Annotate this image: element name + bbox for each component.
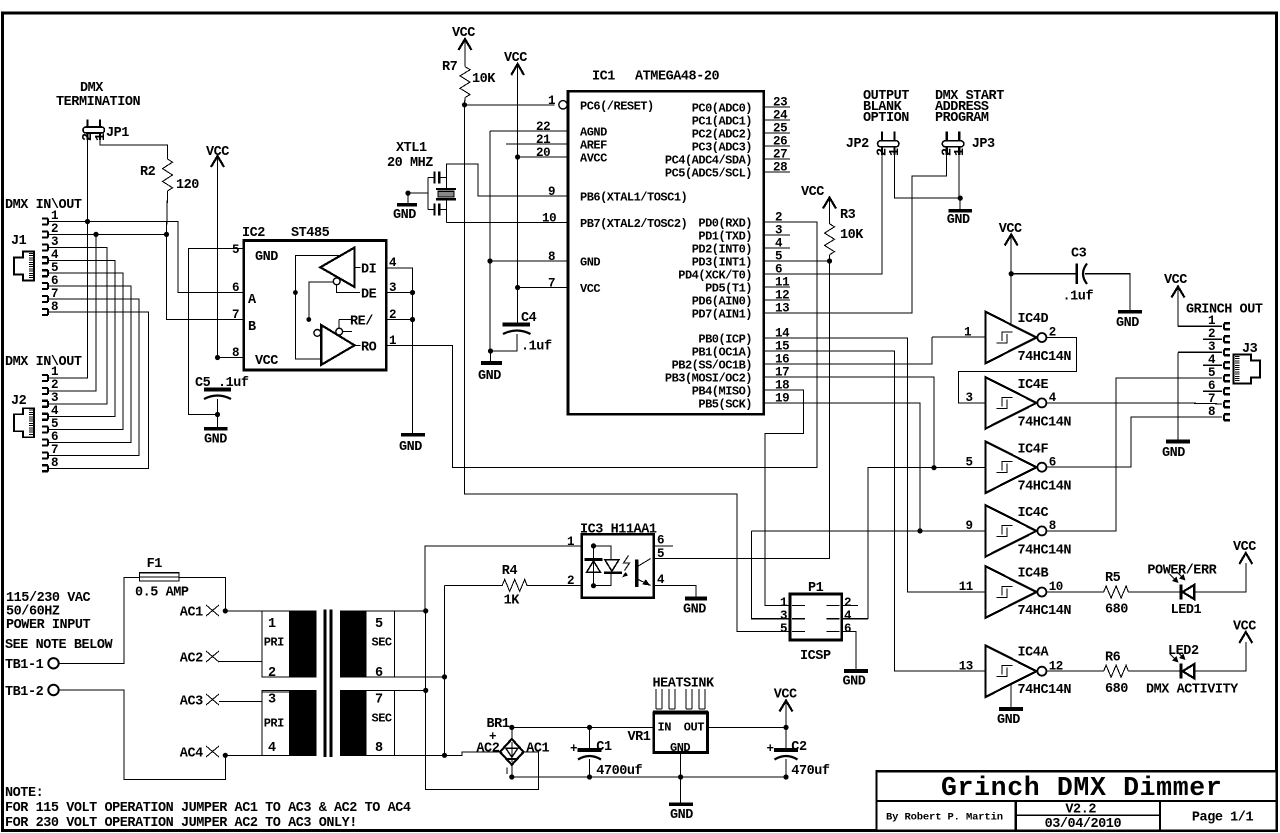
svg-text:7: 7: [232, 308, 239, 322]
wire PB1 net to IC4C input: [752, 530, 986, 532]
svg-text:PD5(T1): PD5(T1): [705, 282, 752, 296]
svg-text:1: 1: [888, 148, 903, 156]
pin 24 IC1: [764, 109, 790, 123]
pin 16 IC1 PB2 to IC4D/IC4F: [764, 337, 932, 367]
wire IC2 VCC pin8: [218, 357, 244, 359]
svg-text:GND: GND: [670, 808, 693, 823]
capacitor C2: [767, 727, 830, 779]
wire J3 pin3 to ground: [1177, 352, 1179, 441]
svg-text:6: 6: [51, 430, 58, 444]
svg-text:PD2(INT0): PD2(INT0): [692, 243, 752, 257]
wire J1 pin2 row: [48, 233, 167, 235]
wire R2 bottom to J1 pin2 row and IC2 B: [167, 191, 244, 320]
pin 26 IC1: [764, 135, 790, 149]
svg-text:PROGRAM: PROGRAM: [935, 111, 989, 126]
pin 1 J2: [42, 365, 58, 381]
svg-text:PC5(ADC5/SCL): PC5(ADC5/SCL): [665, 167, 752, 181]
svg-text:GND: GND: [683, 603, 706, 618]
inverter IC4B: [986, 566, 1072, 619]
wire IC2 GND pin5 to C5 net: [188, 248, 243, 414]
svg-text:3: 3: [780, 609, 787, 623]
pin 19 IC1 PB5 to P1 pin3: [764, 392, 920, 531]
title block: [876, 771, 1276, 832]
svg-text:8: 8: [1208, 405, 1215, 419]
svg-text:TB1-2: TB1-2: [5, 685, 44, 700]
svg-text:3: 3: [268, 693, 276, 708]
bridge rectifier BR1: [476, 717, 549, 780]
wire AC3 to primary pin3: [219, 692, 289, 702]
pin 18 IC1 PB4 to P1 pin1: [764, 379, 804, 606]
svg-text:8: 8: [375, 741, 383, 756]
svg-text:RO: RO: [361, 341, 377, 356]
ground below J3: [1162, 442, 1190, 462]
svg-text:GND: GND: [1162, 446, 1185, 461]
wire VR1 GND to rail: [680, 753, 682, 778]
svg-text:VCC: VCC: [1164, 273, 1187, 288]
pin 13 IC1 to JP3: [764, 155, 947, 316]
svg-text:AC1: AC1: [180, 606, 203, 621]
svg-text:74HC14N: 74HC14N: [1018, 350, 1072, 365]
power VCC (R3): [801, 185, 836, 224]
svg-text:22: 22: [536, 120, 550, 134]
power VCC (IC4D): [999, 222, 1022, 325]
junction C5 bottom: [215, 412, 220, 417]
pin 22 IC1 AGND: [490, 120, 568, 134]
svg-text:.1uf: .1uf: [1063, 290, 1094, 305]
wire DC ground rail: [512, 776, 786, 778]
wire P1 pin4 stub: [842, 618, 869, 620]
pin 8 J2: [42, 456, 58, 471]
pin 5 IC1 INT1: [764, 250, 830, 264]
IC1 left pin names: [580, 100, 687, 297]
wire J1 pin1 row to IC2 A: [48, 222, 244, 293]
crystal XTL1: [387, 141, 456, 223]
svg-text:74HC14N: 74HC14N: [1018, 604, 1072, 619]
inverter IC4A: [986, 645, 1072, 698]
svg-text:03/04/2010: 03/04/2010: [1045, 817, 1122, 832]
IC1 right pin names: [665, 102, 752, 412]
svg-text:PD0(RXD): PD0(RXD): [698, 217, 752, 231]
svg-text:TERMINATION: TERMINATION: [56, 95, 141, 110]
pin 3 J3: [1178, 340, 1230, 355]
svg-text:SEE NOTE BELOW: SEE NOTE BELOW: [5, 638, 113, 653]
svg-text:PD4(XCK/T0): PD4(XCK/T0): [678, 269, 752, 283]
svg-text:GND: GND: [997, 713, 1020, 728]
pin 5 J3: [1208, 366, 1230, 381]
svg-text:AVCC: AVCC: [580, 152, 607, 166]
svg-text:680: 680: [1105, 603, 1128, 618]
svg-text:IN: IN: [658, 721, 672, 735]
svg-text:21: 21: [536, 133, 550, 147]
svg-text:3: 3: [51, 391, 58, 405]
svg-text:20 MHZ: 20 MHZ: [387, 156, 433, 171]
svg-text:J2: J2: [11, 394, 27, 409]
pin 17 IC1 PB3 to P1 pin2: [764, 366, 934, 468]
resistor R5: [1046, 571, 1181, 618]
label 115/230 VAC power input: [5, 591, 113, 653]
wire LED2 to VCC: [1194, 642, 1246, 671]
pin 27 IC1: [764, 148, 790, 162]
node AC3: [180, 694, 219, 710]
svg-text:J1: J1: [11, 234, 27, 249]
pin 21 IC1 AREF: [506, 133, 568, 147]
ground below P1: [843, 671, 869, 690]
fuse F1: [135, 557, 189, 601]
svg-text:1: 1: [268, 617, 276, 632]
pin 11 IC1: [764, 276, 790, 290]
svg-text:AC3: AC3: [180, 695, 203, 710]
connector J2: [11, 394, 34, 437]
svg-text:AREF: AREF: [580, 139, 607, 153]
svg-text:10K: 10K: [840, 228, 864, 243]
svg-text:Page 1/1: Page 1/1: [1192, 811, 1254, 826]
pin 3 J1: [42, 235, 58, 250]
pin 23 IC1: [764, 96, 790, 110]
svg-text:PB6(XTAL1/TOSC1): PB6(XTAL1/TOSC1): [580, 191, 687, 205]
svg-text:R7: R7: [442, 60, 458, 75]
svg-text:5: 5: [375, 617, 383, 632]
svg-text:PB4(MISO): PB4(MISO): [692, 385, 752, 399]
connector J1: [11, 234, 34, 281]
svg-text:+: +: [570, 742, 577, 756]
wire J1 pin1 col to J2 pin1: [48, 222, 88, 379]
svg-text:PC2(ADC2): PC2(ADC2): [692, 128, 752, 142]
wire JP3 pin1 to ground: [958, 155, 960, 198]
svg-text:6: 6: [375, 666, 383, 681]
svg-text:6: 6: [232, 281, 239, 295]
svg-text:PC3(ADC3): PC3(ADC3): [692, 141, 752, 155]
svg-text:IC4C: IC4C: [1018, 506, 1049, 521]
pin 7 J3: [1208, 392, 1230, 407]
wire R3 bottom to INT1 row and IC3 pin5: [654, 255, 830, 559]
svg-text:PB1(OC1A): PB1(OC1A): [692, 346, 752, 360]
transformer T1 secondary windings: [340, 611, 394, 756]
junction sec8: [442, 753, 447, 758]
ground below C4: [478, 351, 502, 384]
wire AC2 to primary pin2: [219, 662, 289, 677]
svg-text:0.5 AMP: 0.5 AMP: [135, 586, 189, 601]
pin 6 IC1 XCK to JP2: [764, 155, 882, 277]
resistor R7: [442, 60, 496, 98]
connector P1 ICSP: [790, 581, 842, 664]
wire IC4D out to IC4E in: [959, 338, 1077, 403]
pin 12 IC1: [764, 289, 790, 303]
capacitor C5: [195, 376, 249, 415]
svg-text:C3: C3: [1071, 247, 1087, 262]
svg-text:LED1: LED1: [1171, 603, 1202, 618]
svg-text:GND: GND: [1116, 316, 1139, 331]
terminal TB1-2: [5, 685, 59, 700]
junction J1 pin1: [85, 219, 90, 224]
wire AC4 to primary pin4: [225, 754, 289, 756]
node AC4: [180, 746, 228, 762]
svg-text:ST485: ST485: [291, 226, 330, 241]
pin 6 J3: [1203, 379, 1230, 394]
junction R3 at INT1: [827, 258, 832, 263]
svg-text:20: 20: [536, 146, 550, 160]
svg-text:OUT: OUT: [684, 721, 704, 735]
svg-text:VCC: VCC: [1233, 540, 1256, 555]
ground below IC3 pin4: [683, 599, 707, 618]
wire J1 pin8 to J2 pin8: [48, 312, 149, 468]
pin 2 J3: [1203, 327, 1230, 342]
svg-text:FOR 230 VOLT OPERATION JUMPER: FOR 230 VOLT OPERATION JUMPER AC2 TO AC3…: [5, 816, 357, 831]
pin 25 IC1: [764, 122, 790, 136]
svg-text:2: 2: [51, 378, 58, 392]
junction C4 to GND col: [488, 348, 493, 353]
svg-text:GND: GND: [393, 208, 416, 223]
svg-text:10: 10: [542, 212, 556, 226]
svg-text:5: 5: [780, 622, 787, 636]
svg-text:PB2(SS/OC1B): PB2(SS/OC1B): [672, 359, 752, 373]
wire J1 pin2 col to J2 pin2: [48, 234, 96, 391]
transformer T1 primary windings: [262, 611, 316, 756]
transformer T1 core: [325, 610, 331, 758]
svg-text:PC1(ADC1): PC1(ADC1): [692, 115, 752, 129]
svg-text:AC1: AC1: [526, 742, 549, 757]
svg-text:10K: 10K: [472, 72, 496, 87]
wire P1 pin2 stub: [842, 605, 859, 607]
pin 2 J1: [42, 222, 58, 237]
svg-text:7: 7: [51, 443, 58, 457]
wire transformer sec5 to IC3 pin1: [425, 546, 582, 611]
svg-text:IC4A: IC4A: [1018, 646, 1050, 661]
label OUTPUT BLANK OPTION: [863, 89, 909, 126]
IC ATMEGA48 IC1 box: [568, 70, 764, 415]
wire IC3 pin4 to ground: [654, 586, 697, 598]
svg-text:VCC: VCC: [452, 26, 475, 41]
svg-text:F1: F1: [147, 557, 163, 572]
resistor R4: [445, 564, 582, 609]
svg-text:TB1-1: TB1-1: [5, 658, 44, 673]
wire sec pin5 row: [394, 610, 425, 612]
wire AGND col to ground: [489, 131, 491, 351]
wire sec7 net to BR1 AC1: [426, 690, 539, 789]
svg-text:1: 1: [51, 209, 58, 223]
junction VR1 gnd: [678, 774, 683, 779]
svg-text:PD1(TXD): PD1(TXD): [698, 230, 752, 244]
svg-text:7: 7: [548, 277, 555, 291]
svg-text:2: 2: [775, 211, 782, 225]
svg-text:1: 1: [51, 365, 58, 379]
svg-text:SEC: SEC: [372, 712, 392, 726]
wire J1 pin5 to J2 pin5: [48, 273, 123, 429]
svg-text:VCC: VCC: [801, 185, 824, 200]
svg-text:FOR 115 VOLT OPERATION JUMPER: FOR 115 VOLT OPERATION JUMPER AC1 TO AC3…: [5, 801, 411, 816]
svg-text:R6: R6: [1105, 651, 1121, 666]
svg-text:1: 1: [953, 148, 968, 156]
svg-text:13: 13: [959, 659, 973, 673]
pin 7 J1: [42, 287, 58, 302]
capacitor C1: [570, 725, 643, 780]
svg-text:DMX IN\OUT: DMX IN\OUT: [5, 198, 82, 213]
svg-text:11: 11: [959, 580, 973, 594]
wire F1 to AC1: [179, 578, 225, 611]
svg-text:74HC14N: 74HC14N: [1018, 415, 1072, 430]
wire sec5 to sec7 tie: [425, 611, 427, 691]
pin 4 J1: [42, 248, 59, 263]
LED LED1: [1147, 564, 1217, 619]
svg-text:2: 2: [844, 596, 851, 610]
wire IC4C out to J3 pin5: [1046, 378, 1222, 531]
svg-text:VCC: VCC: [504, 51, 527, 66]
svg-text:VCC: VCC: [255, 354, 278, 369]
power VCC (LED2): [1233, 620, 1256, 644]
svg-text:R3: R3: [840, 208, 856, 223]
IC3 internal LEDs and phototransistor: [585, 543, 651, 588]
label DMX TERMINATION: [56, 81, 141, 110]
junction VCC C2: [783, 725, 788, 730]
wire PB2 net to IC4D input: [932, 336, 985, 338]
wire J1 pin3 to J2 pin3: [48, 247, 107, 403]
svg-text:R2: R2: [140, 165, 156, 180]
svg-text:Grinch DMX Dimmer: Grinch DMX Dimmer: [941, 773, 1222, 803]
svg-text:JP2: JP2: [846, 137, 869, 152]
heatsink: [653, 676, 716, 711]
junction RESET: [462, 102, 467, 107]
inverter IC4D: [986, 312, 1072, 365]
IC2 internal wires: [293, 256, 377, 359]
junction sec7: [423, 688, 428, 693]
wire VCC to J3 pin1: [1178, 325, 1222, 327]
svg-text:PB7(XTAL2/TOSC2): PB7(XTAL2/TOSC2): [580, 217, 687, 231]
svg-text:GND: GND: [399, 440, 422, 455]
IC ST485 IC2 box: [242, 226, 386, 370]
svg-text:DMX ACTIVITY: DMX ACTIVITY: [1146, 683, 1239, 698]
pin 14 IC1 PB0 to IC4B: [764, 327, 986, 593]
wire J1 pin7 to J2 pin7: [48, 299, 139, 455]
svg-text:By Robert P. Martin: By Robert P. Martin: [886, 812, 1003, 824]
svg-text:4: 4: [268, 741, 276, 756]
power VCC (VR1 out): [774, 688, 797, 728]
ground below XTL1: [393, 205, 417, 223]
svg-text:+: +: [767, 742, 774, 756]
wire sec pin8 row to BR1 AC2: [394, 752, 500, 755]
svg-text:7: 7: [375, 693, 383, 708]
wire JP1 pin1 to R2 top: [100, 140, 168, 159]
svg-text:1: 1: [567, 535, 574, 549]
svg-text:IC4E: IC4E: [1018, 378, 1049, 393]
wire JP2 pin1 to ground: [894, 155, 960, 198]
svg-text:8: 8: [51, 456, 58, 470]
terminal TB1-1: [5, 658, 59, 673]
junction SCK at IC4C row: [917, 528, 922, 533]
svg-text:GND: GND: [478, 369, 501, 384]
wire crystal top to IC1 pin9: [446, 164, 568, 196]
svg-text:PB3(MOSI/OC2): PB3(MOSI/OC2): [665, 372, 752, 386]
wire sec6 tie to sec8: [444, 677, 446, 755]
wire sec pin6 row: [394, 676, 444, 678]
junction VCC C3: [1009, 271, 1014, 276]
junction JP ground: [958, 196, 963, 201]
svg-text:GND: GND: [947, 213, 970, 228]
resistor R6: [1046, 651, 1181, 698]
IC H11AA1 IC3: [580, 523, 657, 598]
svg-text:470uf: 470uf: [791, 764, 830, 779]
svg-text:1: 1: [548, 94, 555, 108]
wire crystal bottom to IC1 pin10: [446, 222, 568, 224]
junction R2 bottom: [164, 232, 169, 237]
wire RO to IC1 RXD: [386, 222, 817, 467]
junction sec6 R4: [442, 674, 447, 679]
pin 3 IC1 TXD: [764, 224, 790, 238]
jumper JP2: [846, 132, 903, 156]
svg-text:1: 1: [780, 596, 787, 610]
svg-text:7: 7: [1208, 392, 1215, 406]
svg-text:GND: GND: [580, 256, 600, 270]
resistor R3: [825, 208, 865, 255]
pin 7 IC1 VCC: [515, 277, 568, 291]
wire BR1 plus to VR1 IN: [512, 726, 654, 728]
svg-text:5: 5: [657, 547, 664, 561]
svg-text:PD7(AIN1): PD7(AIN1): [692, 308, 752, 322]
svg-text:2: 2: [268, 666, 276, 681]
junction J1 pin2: [93, 232, 98, 237]
svg-text:DMX: DMX: [80, 81, 104, 96]
svg-text:C1: C1: [596, 740, 612, 755]
svg-text:4: 4: [844, 609, 852, 623]
svg-text:NOTE:: NOTE:: [5, 786, 43, 801]
svg-text:AGND: AGND: [580, 126, 607, 140]
svg-text:74HC14N: 74HC14N: [1018, 683, 1072, 698]
svg-text:74HC14N: 74HC14N: [1018, 543, 1072, 558]
wire J1 pin4 to J2 pin4: [48, 260, 115, 416]
svg-text:JP3: JP3: [972, 137, 995, 152]
svg-text:PB5(SCK): PB5(SCK): [698, 398, 752, 412]
ground below C3: [1116, 312, 1142, 331]
capacitor C3: [1011, 247, 1130, 312]
wire JP1 pin2 down to J1 pin1 net: [87, 140, 89, 222]
svg-text:OPTION: OPTION: [863, 111, 909, 126]
svg-text:PRI: PRI: [264, 635, 284, 649]
svg-text:C2: C2: [791, 740, 807, 755]
svg-text:SEC: SEC: [372, 635, 392, 649]
wire AC1 to primary pin1: [225, 610, 289, 612]
svg-text:4: 4: [657, 573, 665, 587]
pin 6 J2: [42, 430, 58, 446]
power VCC (IC1): [504, 51, 527, 324]
svg-text:GRINCH OUT: GRINCH OUT: [1186, 303, 1263, 318]
pin 6 J1: [42, 274, 58, 289]
wire LED1 to VCC: [1194, 563, 1246, 592]
svg-text:B: B: [248, 320, 256, 335]
wire R4 left col to sec6: [444, 585, 446, 677]
wire P1 pin6 to ground: [842, 632, 856, 670]
wire VR1 OUT to VCC: [708, 726, 787, 728]
junction sec5: [423, 608, 428, 613]
node AC2: [180, 651, 219, 667]
pin 5 J1: [42, 261, 58, 276]
svg-text:680: 680: [1105, 682, 1128, 697]
power VCC (R7): [452, 26, 475, 67]
pin 4 J2: [42, 404, 59, 420]
pin 5 J2: [42, 417, 58, 433]
pin 1 J3: [1208, 314, 1230, 329]
junction RE: [410, 317, 415, 322]
svg-text:5: 5: [1208, 366, 1215, 380]
ground below VR1: [669, 777, 693, 823]
connector J3: [1234, 342, 1261, 384]
svg-text:IC4B: IC4B: [1018, 567, 1049, 582]
svg-text:VCC: VCC: [580, 282, 600, 296]
svg-text:PC0(ADC0): PC0(ADC0): [692, 102, 752, 116]
svg-text:DI: DI: [361, 263, 377, 278]
IC2 driver triangle (DI): [320, 248, 354, 288]
svg-text:4700uf: 4700uf: [596, 764, 642, 779]
pin 3 J2: [42, 391, 58, 407]
svg-text:IC2: IC2: [242, 226, 265, 241]
label DMX START ADDRESS PROGRAM: [935, 89, 1004, 126]
